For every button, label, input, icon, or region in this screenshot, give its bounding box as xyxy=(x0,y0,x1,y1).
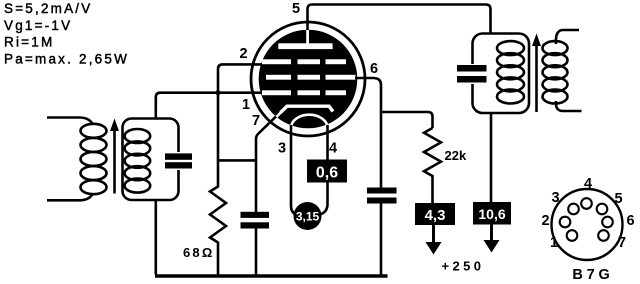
socket B7G outline xyxy=(552,189,623,260)
current box 0,6 xyxy=(307,160,347,183)
wire cathode cap to rail xyxy=(255,229,258,275)
svg-text:22k: 22k xyxy=(445,148,467,163)
svg-text:3: 3 xyxy=(278,141,286,157)
cathode xyxy=(281,106,334,112)
heater pin 3 lead xyxy=(291,125,298,216)
tube V1 envelope xyxy=(251,22,365,136)
transformer T2 secondary winding xyxy=(543,30,582,111)
socket pin 2 xyxy=(560,217,571,228)
svg-text:Ri=1M: Ri=1M xyxy=(4,35,54,50)
pin 5 lead xyxy=(308,5,491,34)
transformer T1 primary winding xyxy=(47,118,107,201)
socket pin 1 xyxy=(567,230,578,241)
svg-text:+250: +250 xyxy=(442,259,485,274)
socket pin 7 xyxy=(598,230,609,241)
svg-text:68Ω: 68Ω xyxy=(183,245,214,260)
wire to pin 2 xyxy=(218,64,262,92)
svg-text:1: 1 xyxy=(242,97,250,113)
capacitor C3 screen bypass xyxy=(367,188,397,204)
svg-text:2: 2 xyxy=(240,46,248,62)
svg-text:1: 1 xyxy=(550,235,558,251)
svg-text:4: 4 xyxy=(584,176,592,192)
grid g1 row xyxy=(262,59,346,64)
socket pin 5 xyxy=(597,204,608,215)
supply arrow right xyxy=(484,225,500,253)
output transformer T2 frame xyxy=(473,34,530,114)
wire cathode branch xyxy=(218,159,256,162)
grid g3 row xyxy=(262,90,346,95)
pin 6 lead xyxy=(355,78,381,188)
socket pin 4 xyxy=(581,198,592,209)
ground rail xyxy=(155,274,388,278)
tuned circuit L1 frame xyxy=(123,119,179,201)
svg-text:3: 3 xyxy=(551,190,559,206)
wire to 22k xyxy=(381,112,433,128)
svg-text:7: 7 xyxy=(618,235,626,251)
tuned circuit secondary winding L1 xyxy=(125,129,151,193)
capacitor C4 (primary) xyxy=(457,64,487,84)
svg-text:0,6: 0,6 xyxy=(316,165,338,182)
anode plate xyxy=(278,43,332,49)
svg-text:7: 7 xyxy=(252,113,260,129)
wire LC top to grid xyxy=(156,93,262,119)
transformer T1 coupling arrow xyxy=(110,119,119,194)
svg-text:6: 6 xyxy=(626,213,634,229)
voltage box 4,3 xyxy=(415,203,455,225)
grid g2 row xyxy=(266,75,356,80)
socket pin 3 xyxy=(568,204,579,215)
wire transformer to 10,6 xyxy=(490,113,493,202)
tube V1 body xyxy=(259,30,358,129)
svg-text:6: 6 xyxy=(370,61,378,77)
supply arrow left xyxy=(426,225,442,255)
wire LC bottom to rail xyxy=(155,200,158,275)
node junction grid xyxy=(215,90,220,95)
svg-text:10,6: 10,6 xyxy=(478,206,505,222)
heater pin 4 lead xyxy=(320,125,328,215)
svg-text:3,15: 3,15 xyxy=(296,210,320,224)
svg-text:2: 2 xyxy=(541,213,549,229)
svg-text:Vg1=-1V: Vg1=-1V xyxy=(4,18,72,33)
anode lead white xyxy=(306,29,309,45)
svg-text:S=5,2mA/V: S=5,2mA/V xyxy=(4,1,92,16)
svg-text:5: 5 xyxy=(292,1,300,17)
transformer T2 primary winding xyxy=(497,41,524,103)
socket pin 6 xyxy=(602,217,613,228)
cathode tail white xyxy=(276,106,287,117)
resistor R2 22k xyxy=(424,128,441,203)
wire pin 7 cathode xyxy=(256,115,278,213)
svg-text:4: 4 xyxy=(329,141,337,157)
heater filament xyxy=(291,115,328,128)
svg-text:Pa=max. 2,65W: Pa=max. 2,65W xyxy=(4,52,129,67)
voltage box 10,6 xyxy=(473,202,511,225)
transformer T2 coupling arrow xyxy=(532,34,541,113)
wire screen cap to rail xyxy=(380,204,383,275)
svg-text:4,3: 4,3 xyxy=(425,207,446,224)
svg-text:B7G: B7G xyxy=(572,267,613,283)
svg-text:5: 5 xyxy=(614,191,622,207)
meter circle 3,15 xyxy=(294,202,322,230)
resistor R1 68 ohm xyxy=(210,93,226,275)
capacitor C2 cathode bypass xyxy=(241,212,270,229)
capacitor C1 (tuning) xyxy=(165,152,192,170)
